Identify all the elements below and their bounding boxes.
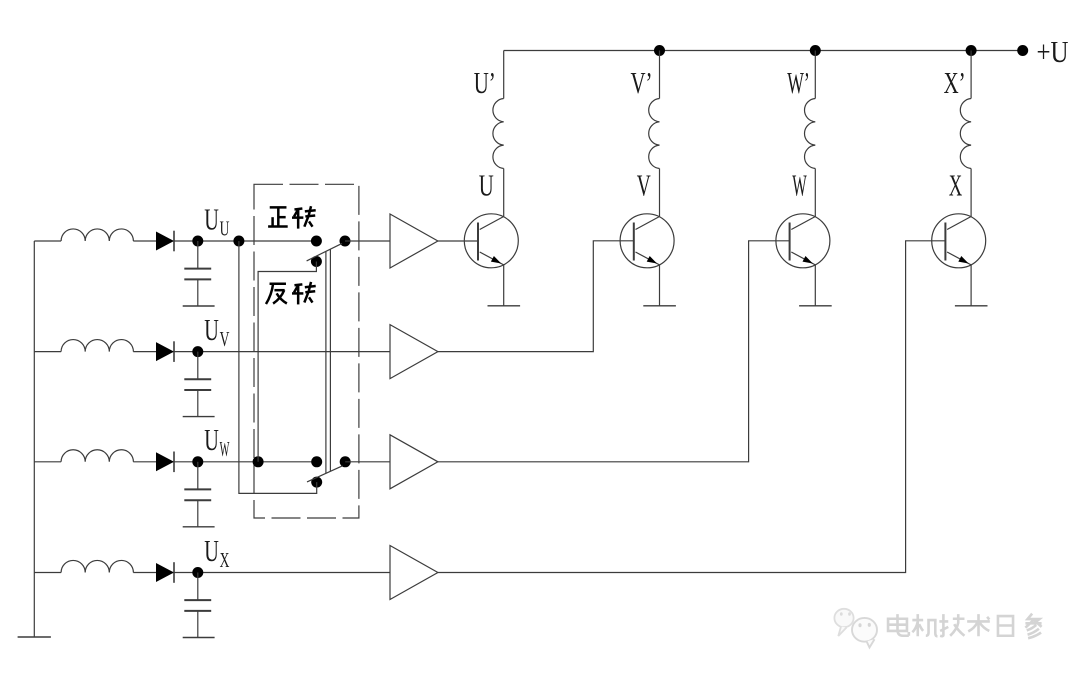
wire input line Uw bbox=[34, 461, 61, 463]
wire +U supply rail bbox=[504, 50, 1023, 52]
node rail junction W' bbox=[810, 45, 821, 56]
wire buffer1 to VT-U base bbox=[438, 240, 478, 242]
capacitor Cx lead bbox=[197, 573, 199, 600]
transistor VT-W body bbox=[776, 214, 830, 268]
COLUMN X bbox=[932, 51, 988, 306]
switch S2 forward contact node bbox=[311, 456, 322, 467]
INPUT LINE UX bbox=[34, 533, 390, 638]
node rail junction X' bbox=[966, 45, 977, 56]
node Uu reverse tap bbox=[233, 236, 244, 247]
wire Ux line diode to buffer segment bbox=[133, 572, 390, 574]
capacitor Cx bottom lead bbox=[197, 611, 199, 637]
wire Uu line diode to switch segment bbox=[133, 240, 316, 242]
transistor VT-V base bar bbox=[633, 223, 635, 261]
capacitor Cv lead bbox=[197, 352, 199, 379]
svg-text:W: W bbox=[792, 168, 807, 203]
wire collector drop U' bbox=[503, 51, 505, 99]
wire Uv line diode to buffer segment bbox=[133, 351, 390, 353]
wire emitter to ground V bbox=[659, 265, 661, 306]
wire left supply bus bbox=[33, 241, 35, 637]
inductor input Lx bbox=[61, 560, 133, 572]
wire input line Uu bbox=[34, 240, 61, 242]
ground emitter W bbox=[799, 305, 832, 307]
svg-text:V’: V’ bbox=[631, 65, 653, 100]
wire coil to collector U bbox=[503, 169, 505, 217]
inductor input Lw bbox=[61, 450, 133, 462]
transistor VT-V collector stroke bbox=[636, 217, 660, 230]
svg-text:V: V bbox=[637, 168, 651, 203]
node Uu junction bbox=[192, 236, 203, 247]
ground emitter V bbox=[643, 305, 676, 307]
node Uv junction bbox=[192, 346, 203, 357]
wire collector drop X' bbox=[970, 51, 972, 99]
wire S2 pole to buffer3 bbox=[345, 461, 390, 463]
capacitor Cw plates bbox=[184, 488, 211, 490]
switch S1 reverse contact node bbox=[311, 256, 322, 267]
transistor VT-W collector stroke bbox=[791, 217, 815, 230]
wire buffer2 to VT-V base bbox=[438, 241, 634, 352]
transistor VT-X base bar bbox=[944, 223, 946, 261]
transistor VT-U emitter arrow bbox=[491, 256, 501, 264]
COLUMN U bbox=[464, 51, 520, 306]
svg-text:W’: W’ bbox=[787, 65, 810, 100]
wire collector drop W' bbox=[814, 51, 816, 99]
svg-text:X: X bbox=[220, 548, 230, 572]
svg-text:X’: X’ bbox=[944, 65, 966, 100]
ground emitter U bbox=[488, 305, 521, 307]
diode Dw bbox=[156, 452, 174, 471]
switch S2 junction node left bbox=[253, 456, 264, 467]
switch S1 forward contact node bbox=[311, 236, 322, 247]
svg-text:U: U bbox=[204, 312, 219, 347]
buffer A2 bbox=[390, 325, 438, 379]
transistor VT-W base bar bbox=[789, 223, 791, 261]
wire coil to collector X bbox=[970, 169, 972, 217]
label forward ZhengZhuan bbox=[268, 206, 316, 228]
svg-text:V: V bbox=[220, 327, 230, 351]
transistor VT-X body bbox=[932, 214, 986, 268]
diode Dx bbox=[156, 563, 174, 582]
switch S2 reverse contact node bbox=[311, 477, 322, 488]
wire Uu tap to S2 reverse contact crossover bbox=[239, 241, 317, 493]
svg-text:U: U bbox=[204, 533, 219, 568]
transistor VT-X emitter stroke bbox=[947, 252, 971, 265]
diode Dv cathode bar bbox=[173, 341, 175, 362]
capacitor Cw lead bbox=[197, 462, 199, 489]
capacitor Cv bottom lead bbox=[197, 390, 199, 416]
INPUT LINE UW bbox=[34, 422, 316, 527]
transistor VT-U emitter stroke bbox=[480, 252, 504, 265]
capacitor Cw bottom lead bbox=[197, 500, 199, 526]
inductor W' winding bbox=[805, 99, 816, 169]
wire buffer3 to VT-W base bbox=[438, 241, 790, 462]
transistor VT-U collector stroke bbox=[480, 217, 504, 230]
ground left bus bbox=[18, 636, 51, 638]
buffer A3 bbox=[390, 435, 438, 489]
wire input line Ux bbox=[34, 572, 61, 574]
inductor input Lu bbox=[61, 229, 133, 241]
inductor V' winding bbox=[649, 99, 660, 169]
watermark wechat logo bbox=[834, 609, 853, 636]
capacitor Cv plates bbox=[184, 378, 211, 380]
wire collector drop V' bbox=[659, 51, 661, 99]
wire input line Uv bbox=[34, 351, 61, 353]
capacitor Cu lead bbox=[197, 241, 199, 268]
INPUT LINE UU bbox=[34, 202, 316, 307]
transistor VT-X collector stroke bbox=[947, 217, 971, 230]
transistor VT-W emitter stroke bbox=[791, 252, 815, 265]
diode Dv bbox=[156, 342, 174, 361]
mechanical linkage bars bbox=[325, 251, 327, 473]
wire emitter to ground W bbox=[814, 265, 816, 306]
wire emitter to ground X bbox=[970, 265, 972, 306]
switch S2 lever bbox=[307, 466, 343, 482]
wire coil to collector V bbox=[659, 169, 661, 217]
transistor VT-W emitter arrow bbox=[803, 256, 813, 264]
transistor VT-V emitter stroke bbox=[636, 252, 660, 265]
node rail junction V' bbox=[654, 45, 665, 56]
svg-text:W: W bbox=[220, 437, 230, 461]
inductor X' winding bbox=[960, 99, 971, 169]
capacitor Cu plates bbox=[184, 268, 211, 270]
switch S1 lever bbox=[307, 243, 342, 261]
terminal bar Cu bbox=[183, 305, 215, 307]
svg-text:+U: +U bbox=[1037, 34, 1069, 69]
terminal bar Cv bbox=[183, 416, 215, 418]
diode Dx cathode bar bbox=[173, 562, 175, 583]
label reverse FanZhuan bbox=[266, 282, 316, 304]
ground emitter X bbox=[955, 305, 988, 307]
capacitor Cu bottom lead bbox=[197, 279, 199, 305]
svg-text:U: U bbox=[204, 422, 219, 457]
wire emitter to ground U bbox=[503, 265, 505, 306]
diode Du cathode bar bbox=[173, 231, 175, 252]
svg-text:U: U bbox=[204, 202, 219, 237]
buffer A1 bbox=[390, 214, 438, 268]
svg-text:U’: U’ bbox=[474, 65, 496, 100]
transistor VT-X emitter arrow bbox=[958, 256, 968, 264]
transistor VT-U body bbox=[464, 214, 518, 268]
capacitor Cx plates bbox=[184, 599, 211, 601]
switch S1 pole node bbox=[340, 236, 351, 247]
svg-text:U: U bbox=[479, 168, 494, 203]
transistor VT-V body bbox=[620, 214, 674, 268]
node rail end terminal bbox=[1017, 45, 1028, 56]
COLUMN W bbox=[776, 51, 832, 306]
watermark text dianji jishu ricen bbox=[888, 614, 1042, 639]
switch S2 pole node bbox=[340, 456, 351, 467]
INPUT LINE UV bbox=[34, 312, 390, 417]
inductor U' winding bbox=[493, 99, 504, 169]
terminal bar Cx bbox=[183, 637, 215, 639]
wire Uw line diode to switch segment bbox=[133, 461, 316, 463]
transistor VT-V emitter arrow bbox=[647, 256, 657, 264]
svg-text:U: U bbox=[220, 217, 230, 241]
wire coil to collector W bbox=[814, 169, 816, 217]
buffer A4 bbox=[390, 546, 438, 600]
diode Dw cathode bar bbox=[173, 452, 175, 473]
inductor input Lv bbox=[61, 340, 133, 352]
wire S1 pole to buffer1 bbox=[345, 240, 390, 242]
node Uw junction bbox=[192, 456, 203, 467]
terminal bar Cw bbox=[183, 526, 215, 528]
transistor VT-U base bar bbox=[477, 223, 479, 261]
wire buffer4 to VT-X base bbox=[438, 241, 946, 573]
control box dashed outline bbox=[254, 184, 359, 518]
node Ux junction bbox=[192, 567, 203, 578]
svg-text:X: X bbox=[949, 168, 963, 203]
wire S1 reverse contact to Uw crossover bbox=[258, 262, 316, 462]
diode Du bbox=[156, 232, 174, 251]
COLUMN V bbox=[620, 51, 676, 306]
